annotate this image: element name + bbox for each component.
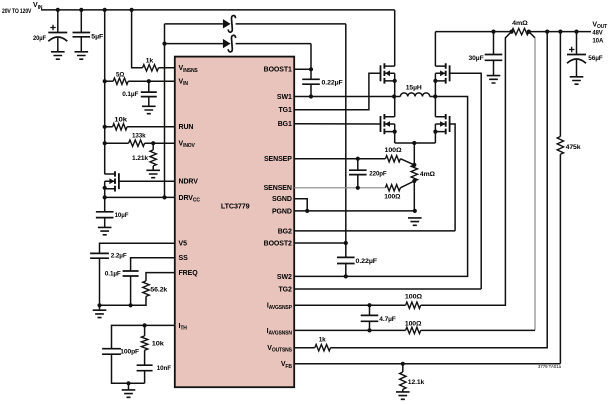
svg-text:BG2: BG2 [278, 228, 292, 235]
resistor R9 4mohm output sense [512, 28, 529, 34]
junction SW2 inductor node [433, 94, 437, 98]
junction R9 left [510, 30, 514, 34]
wire BOOST1 pin [294, 68, 311, 70]
svg-text:NDRV: NDRV [179, 179, 199, 186]
svg-text:5Ω: 5Ω [116, 71, 125, 78]
ground R5 [146, 170, 160, 177]
wire C11 down [99, 258, 101, 305]
ground R14 [396, 392, 410, 399]
wire SENSEP row [294, 158, 385, 160]
svg-text:1k: 1k [319, 337, 326, 344]
wire C4 to ground [104, 218, 106, 228]
wire VINSNS branch vertical [132, 10, 143, 68]
ground PGND [408, 218, 422, 225]
svg-text:0.22µF: 0.22µF [356, 258, 378, 265]
svg-text:15µH: 15µH [406, 85, 422, 92]
wire ITH row [112, 325, 175, 348]
svg-text:20V TO 120V: 20V TO 120V [2, 8, 32, 15]
resistor R4 133k [129, 140, 145, 146]
wire diode D2 row [165, 43, 223, 45]
wire C6 to SW2 row [345, 264, 347, 277]
resistor R10 100ohm [406, 302, 421, 308]
wire R16 to C14 [144, 350, 146, 365]
capacitor C4 10uF body [96, 212, 114, 218]
wire kelvin sense P [421, 32, 512, 306]
svg-text:10k: 10k [114, 117, 127, 124]
capacitor C10 4.7uF lead [369, 305, 371, 315]
svg-text:LTC3779: LTC3779 [221, 202, 250, 211]
diode D2 [223, 39, 231, 48]
svg-text:BOOST2: BOOST2 [264, 240, 292, 247]
wire R15 down [100, 296, 147, 305]
svg-text:5µF: 5µF [91, 33, 103, 40]
junction 10k row [103, 125, 107, 129]
wire Q1 gate to NDRV pin [119, 180, 175, 182]
svg-text:48V: 48V [592, 30, 603, 37]
resistor R1 1k [143, 65, 159, 71]
svg-text:SGND: SGND [272, 196, 292, 203]
svg-text:100Ω: 100Ω [405, 293, 423, 300]
wire SW1 row [294, 96, 394, 98]
junction 4.7uF bottom [367, 328, 371, 332]
svg-text:PGND: PGND [272, 208, 292, 215]
wire R7 to sense+ [400, 159, 414, 165]
junction 4.7uF top [367, 303, 371, 307]
svg-text:SENSEN: SENSEN [264, 185, 292, 192]
svg-text:TG2: TG2 [278, 286, 292, 293]
junction PGND ground node [413, 209, 417, 213]
wire R3 to RUN pin [127, 126, 175, 128]
capacitor C14 10nF body [137, 365, 153, 371]
resistor R8 100ohm [385, 185, 400, 191]
svg-text:20µF: 20µF [33, 35, 46, 42]
capacitor C9 56uF polarized body [567, 54, 586, 56]
junction ITH gnd [126, 381, 130, 385]
junction R5 tap [151, 141, 155, 145]
transistor M4 bottom-right NMOS mirrored [449, 116, 451, 132]
junction VFB divider [401, 362, 405, 366]
svg-text:4mΩ: 4mΩ [420, 171, 436, 178]
wire main left vertical from VIN rail [104, 10, 106, 174]
junction sense resistor top [412, 163, 416, 167]
wire D2 down to BOOST1 [310, 44, 312, 70]
capacitor C3 0.1uF lead [148, 81, 150, 92]
wire DRVCC row [105, 196, 175, 198]
svg-text:3779 TA01a: 3779 TA01a [538, 364, 562, 369]
wire bottom source rail [395, 142, 436, 144]
capacitor C1 20uF lead [57, 10, 59, 33]
wire R14 to ground [402, 389, 404, 392]
junction 220pF bottom [356, 186, 360, 190]
svg-text:BG1: BG1 [278, 121, 292, 128]
resistor R5 1.21k vertical [152, 143, 154, 150]
junction M2 source [393, 130, 397, 134]
junction BOOST2 node [344, 241, 348, 245]
wire VOUT rail [435, 31, 511, 33]
junction 220pF top [356, 157, 360, 161]
svg-text:0.1µF: 0.1µF [105, 270, 121, 277]
capacitor C7 220pF body [349, 170, 367, 174]
wire M3 source to SW2 [434, 73, 436, 96]
svg-text:10µF: 10µF [115, 212, 129, 219]
svg-text:10k: 10k [152, 341, 164, 348]
svg-text:RUN: RUN [179, 124, 194, 131]
junction VIN rail C2 [79, 8, 83, 12]
transistor M2 bottom-left NMOS [380, 116, 382, 132]
ground C3 [142, 106, 156, 113]
junction VIN rail R-vinsns branch [130, 8, 134, 12]
svg-text:100pF: 100pF [120, 348, 139, 355]
wire M3 gate to TG2 riser [449, 73, 481, 289]
wire gnd row drop [99, 305, 101, 310]
junction rail 30uF [491, 30, 495, 34]
resistor R3 10k [113, 124, 128, 130]
wire VFB row [294, 363, 560, 365]
svg-text:4.7µF: 4.7µF [379, 316, 395, 323]
junction SW1 cap bottom [309, 94, 313, 98]
svg-text:SW1: SW1 [277, 94, 292, 101]
wire BG2 row [294, 230, 455, 232]
capacitor C1 20uF polarized body [48, 32, 67, 34]
svg-text:0.1µF: 0.1µF [122, 91, 138, 98]
svg-text:100Ω: 100Ω [385, 147, 403, 154]
wire M1 source to SW1 [394, 73, 396, 96]
wire SENSEN row [294, 187, 385, 189]
resistor R11 100ohm [406, 327, 421, 333]
wire VFB riser [559, 154, 561, 363]
capacitor C13 100pF body [102, 349, 121, 355]
wire to R4 [105, 142, 129, 144]
junction BOOST1 node [309, 67, 313, 71]
capacitor C2 5uF body [73, 33, 91, 37]
junction rail 56uF [574, 30, 578, 34]
capacitor C12 0.1uF body [123, 271, 139, 276]
svg-text:SW2: SW2 [277, 274, 292, 281]
svg-text:SS: SS [179, 255, 189, 262]
wire C13 down [112, 354, 145, 383]
svg-text:30µF: 30µF [469, 55, 484, 62]
wire M4 gate to BG2 riser [449, 124, 455, 231]
capacitor C9 56uF lead [576, 32, 578, 55]
wire VIN rail [41, 9, 395, 11]
capacitor C5 0.22uF lead [310, 69, 312, 79]
wire R1 to VINSNS pin [159, 67, 175, 69]
svg-text:0.22µF: 0.22µF [322, 80, 343, 87]
wire BOOST2 pin [294, 242, 346, 244]
wire VOUTSNS row right [331, 32, 548, 348]
svg-text:100Ω: 100Ω [384, 193, 401, 200]
svg-text:4mΩ: 4mΩ [512, 20, 528, 27]
junction Q1 source [103, 186, 107, 190]
svg-text:TG1: TG1 [278, 107, 292, 114]
wire SS row [131, 258, 175, 271]
wire M2 drain [394, 97, 396, 117]
junction sense rail center [412, 141, 416, 145]
junction diode row 2 branch [162, 42, 166, 46]
capacitor C8 30uF body [485, 55, 503, 61]
junction SGND-PGND [305, 209, 309, 213]
junction VIN rail main vertical [103, 8, 107, 12]
diode D1 [223, 19, 231, 28]
resistor R13 475k [557, 137, 563, 155]
svg-text:2.2µF: 2.2µF [111, 252, 127, 259]
wire SW2 row [294, 97, 467, 277]
resistor R2 5ohm [113, 78, 128, 84]
junction M4 source [433, 130, 437, 134]
capacitor C2 5uF lead [80, 10, 82, 33]
svg-text:V5: V5 [179, 241, 188, 248]
junction 5ohm row [103, 79, 107, 83]
junction 133k row [103, 141, 107, 145]
wire TG2 row [294, 288, 481, 290]
capacitor C5 0.22uF body [302, 79, 320, 84]
capacitor C10 4.7uF body [361, 315, 379, 321]
junction rail VOUTSNS [545, 30, 549, 34]
wire C14 down [144, 371, 146, 384]
junction sense resistor bottom [412, 179, 416, 183]
transistor M1 top-left NMOS [380, 65, 382, 81]
wire diode supply vertical [164, 24, 166, 198]
junction rail VFB [558, 30, 562, 34]
capacitor C6 0.22uF body [337, 257, 355, 263]
wire R4 to VINOV pin [145, 142, 175, 144]
svg-text:56µF: 56µF [588, 55, 602, 62]
inductor L1 15uH [394, 96, 400, 98]
svg-text:100Ω: 100Ω [405, 320, 422, 327]
svg-text:10nF: 10nF [157, 365, 171, 372]
wire V5 row [100, 243, 175, 253]
junction R9 right [527, 30, 531, 34]
wire PGND row [294, 210, 415, 212]
wire sense top [413, 143, 415, 165]
svg-text:1.21k: 1.21k [132, 155, 148, 162]
transistor M3 top-right NMOS mirrored [449, 65, 451, 81]
svg-text:12.1k: 12.1k [408, 379, 425, 386]
op-amp U1 LTC3779 controller IC body [175, 57, 294, 388]
svg-text:220pF: 220pF [369, 170, 386, 177]
svg-text:1k: 1k [146, 57, 154, 64]
capacitor C8 30uF lead [493, 32, 495, 55]
svg-text:FREQ: FREQ [179, 270, 199, 277]
wire TG1 row [294, 73, 380, 109]
wire Q1 source vertical [104, 181, 106, 212]
wire SGND jog [294, 199, 307, 211]
ground ITH block [122, 390, 136, 397]
capacitor C11 2.2uF body [90, 253, 109, 258]
resistor R14 12.1k [402, 364, 404, 372]
wire M4 source [434, 124, 436, 143]
resistor R6 4mohm vertical [411, 165, 417, 181]
wire D1 down to BOOST2 [345, 24, 347, 258]
svg-text:SENSEP: SENSEP [264, 156, 292, 163]
wire kelvin sense N [529, 32, 535, 38]
wire C12 down [130, 276, 132, 305]
wire ITH gnd drop [128, 383, 130, 390]
ground C1 [51, 52, 65, 59]
svg-text:10A: 10A [592, 38, 603, 45]
resistor R12 1k [315, 345, 331, 351]
wire R8 to sense- [400, 181, 414, 188]
wire sense bottom to PGND [413, 181, 415, 211]
ground C8 [487, 76, 501, 83]
capacitor C7 220pF lead [357, 159, 359, 171]
wire IAVGSNSP row [294, 304, 405, 306]
wire M4 drain [434, 97, 436, 117]
wire VOUTSNS row left [294, 347, 315, 349]
wire M1 drain from VIN rail [394, 10, 396, 66]
junction SS gnd row [129, 303, 133, 307]
wire diode D1 row [165, 23, 223, 25]
ground C9 [570, 77, 584, 84]
svg-text:133k: 133k [132, 133, 146, 140]
wire BG1 row [294, 123, 381, 125]
wire IAVGSNSN row [294, 329, 405, 331]
transistor Q1 NDRV external NMOS [118, 173, 120, 189]
junction DRVCC diode branch [162, 195, 166, 199]
junction DRVCC row [103, 195, 107, 199]
resistor R15 56.2k [143, 281, 149, 297]
wire M2 source [394, 124, 396, 143]
wire R2 to VIN pin [128, 80, 175, 82]
wire FREQ row [146, 273, 175, 281]
wire to R2 [105, 80, 114, 82]
wire to R3 [105, 126, 113, 128]
wire M3 drain to VOUT rail [434, 32, 436, 67]
svg-text:56.2k: 56.2k [150, 286, 167, 293]
svg-text:475k: 475k [566, 144, 581, 151]
junction C3 tap [147, 79, 151, 83]
junction M3 source [433, 79, 437, 83]
svg-text:BOOST1: BOOST1 [264, 67, 292, 74]
junction M1 source [393, 79, 397, 83]
capacitor C3 0.1uF body [141, 92, 157, 97]
ground V5 block [93, 310, 107, 317]
junction VIN rail C1 [56, 8, 60, 12]
junction ITH 10k tap [143, 323, 147, 327]
resistor R7 100ohm [385, 156, 400, 162]
junction SW1 inductor node [392, 94, 396, 98]
junction SW2 boost cap [344, 274, 348, 278]
ground C4 [98, 227, 112, 234]
junction V5 gnd row [97, 303, 101, 307]
ground C2 [75, 52, 89, 59]
resistor R16 10k vertical [144, 325, 146, 336]
